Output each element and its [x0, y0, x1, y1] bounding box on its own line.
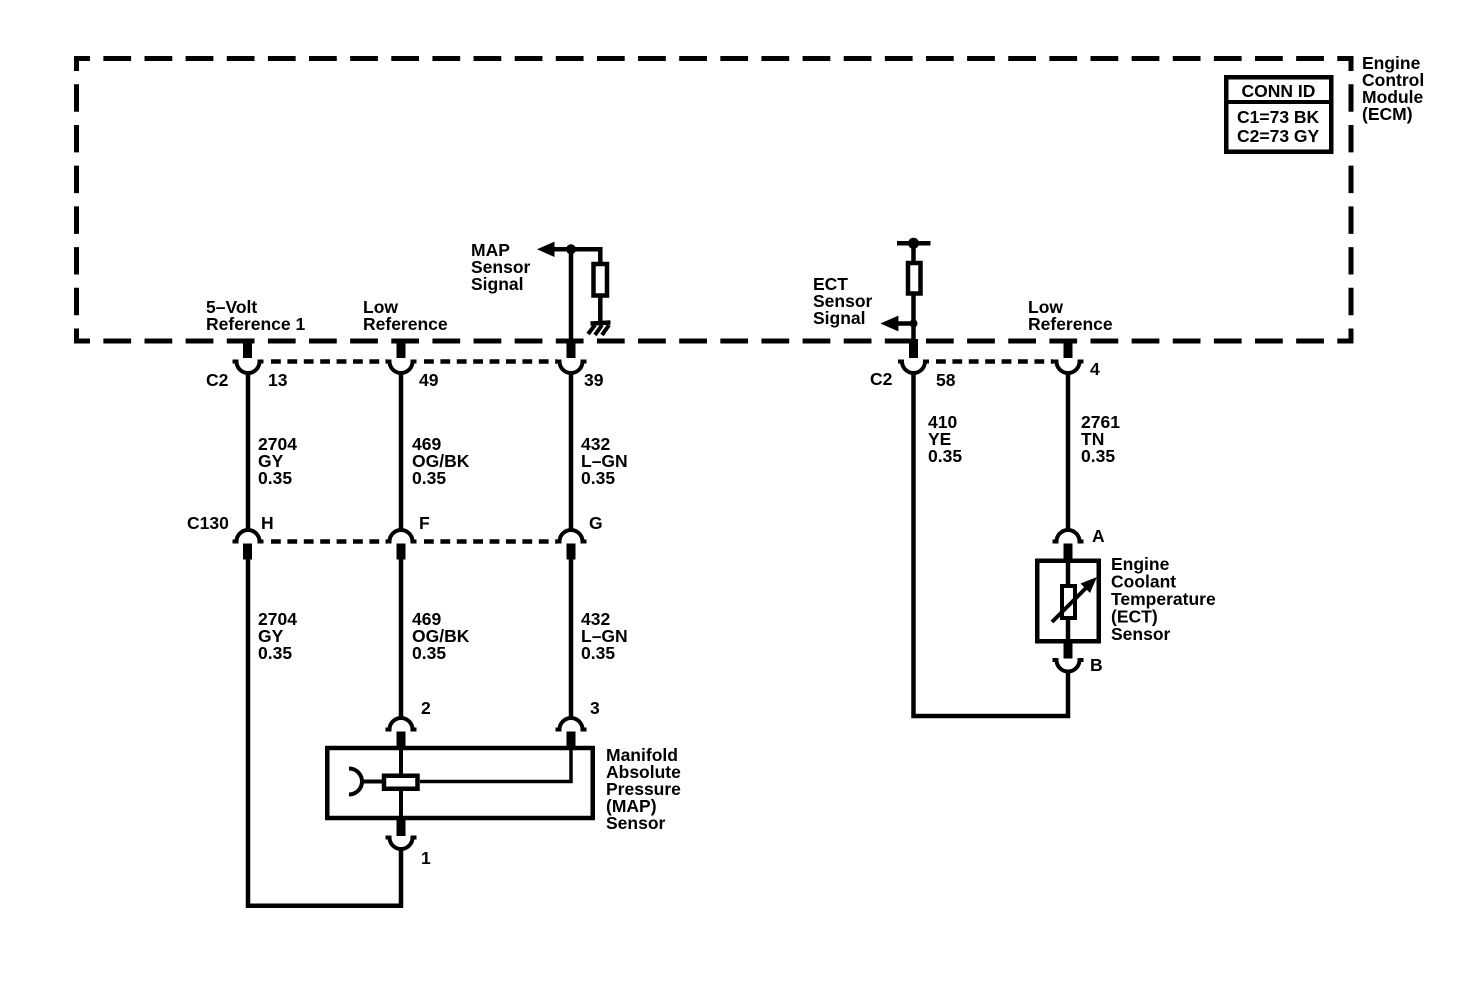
wire 432 L-GN segment C2-39 to C130-G — [569, 371, 574, 531]
MAP Sensor Signal label — [471, 240, 531, 294]
connector C2 pin 58 — [898, 339, 929, 373]
svg-text:G: G — [589, 513, 603, 533]
svg-text:2: 2 — [421, 698, 431, 718]
svg-text:CONN ID: CONN ID — [1242, 81, 1316, 101]
MAP internal vertical wire pin2-pin1 — [399, 746, 403, 820]
wire 410 YE segment pin 58 to ECT-B (with bottom run) — [914, 371, 1069, 716]
wire 2704 GY segment C2-13 to C130-H — [246, 371, 251, 531]
svg-text:0.35: 0.35 — [412, 643, 446, 663]
svg-text:Sensor: Sensor — [1111, 624, 1171, 644]
svg-text:4: 4 — [1090, 359, 1100, 379]
wire label 469 OG/BK 0.35 (lower) — [412, 609, 470, 663]
MAP internal wire port to element — [360, 780, 384, 784]
svg-text:0.35: 0.35 — [258, 643, 292, 663]
svg-text:Reference: Reference — [363, 314, 448, 334]
MAP internal wire element to pin 3 — [420, 748, 571, 782]
connector ECT pin B — [1053, 642, 1084, 672]
svg-text:Signal: Signal — [813, 308, 866, 328]
connector C2 pin 49 — [386, 339, 417, 373]
wire 432 L-GN segment C130-G to MAP pin 3 — [569, 560, 574, 720]
connector C130 dotted tie line — [271, 539, 557, 544]
wire 469 OG/BK segment C2-49 to C130-F — [399, 371, 404, 531]
wire label 410 YE 0.35 — [928, 412, 962, 466]
MAP internal element rectangle — [384, 776, 418, 789]
svg-text:0.35: 0.35 — [928, 446, 962, 466]
connector C2 pin 39 — [556, 339, 587, 373]
MAP sensor label — [606, 745, 681, 833]
wire: MAP signal vertical to pin 39 — [569, 249, 574, 341]
svg-text:C130: C130 — [187, 513, 229, 533]
ECT Sensor Signal label — [813, 274, 873, 328]
ECT sensor label — [1111, 554, 1216, 644]
5-Volt Reference 1 label — [206, 297, 305, 334]
wire: corner to MAP pull-up resistor — [598, 249, 600, 264]
svg-text:B: B — [1090, 655, 1103, 675]
svg-text:39: 39 — [584, 370, 604, 390]
connector MAP pin 1 — [386, 818, 417, 849]
connector C130 pin F — [386, 530, 417, 560]
wire label 2704 GY 0.35 (lower) — [258, 609, 297, 663]
svg-text:Reference: Reference — [1028, 314, 1113, 334]
connector C130 pin G — [556, 530, 587, 560]
svg-text:Signal: Signal — [471, 274, 524, 294]
ECT sensor box — [1037, 561, 1099, 642]
node: MAP signal junction dot — [566, 244, 576, 254]
MAP internal pressure port arc — [349, 769, 362, 795]
node: ECT 5V bias bar and dot — [897, 238, 931, 249]
wire 2761 TN segment pin 4 to ECT-A — [1066, 371, 1071, 531]
svg-text:58: 58 — [936, 370, 956, 390]
wire label 2704 GY 0.35 (upper) — [258, 434, 297, 488]
Low Reference label (right) — [1028, 297, 1113, 334]
wire: ECT signal vertical to pin 58 — [911, 243, 916, 341]
resistor: MAP pull-up — [594, 262, 608, 322]
connector C2 pin 4 — [1053, 339, 1084, 373]
wire label 432 L-GN 0.35 (lower) — [581, 609, 628, 663]
connector C2 pin 13 — [233, 339, 264, 373]
svg-text:Reference 1: Reference 1 — [206, 314, 305, 334]
svg-text:F: F — [419, 513, 430, 533]
ECM label: Engine Control Module (ECM) — [1362, 53, 1424, 124]
wire label 469 OG/BK 0.35 (upper) — [412, 434, 470, 488]
MAP signal arrow (points left) — [537, 242, 600, 257]
Low Reference label (left) — [363, 297, 448, 334]
ECT internal vertical wire — [1066, 559, 1071, 643]
svg-text:C2: C2 — [870, 369, 893, 389]
svg-text:13: 13 — [268, 370, 288, 390]
ECM module dashed border — [74, 56, 1353, 344]
svg-text:Sensor: Sensor — [606, 813, 666, 833]
svg-text:3: 3 — [590, 698, 600, 718]
connector C2 dotted tie line (pins 58-4) — [936, 359, 1053, 364]
wire 2704 GY segment C130-H to MAP pin 1 (with bottom run) — [248, 560, 401, 906]
ground (chassis) symbol — [588, 323, 611, 336]
svg-text:0.35: 0.35 — [258, 468, 292, 488]
resistor: ECT pull-up — [908, 263, 921, 294]
connector C130 pin H — [233, 530, 264, 560]
svg-text:C2: C2 — [206, 370, 229, 390]
svg-text:(ECM): (ECM) — [1362, 104, 1413, 124]
connector MAP pin 2 — [386, 718, 417, 747]
svg-text:0.35: 0.35 — [581, 643, 615, 663]
ECT thermistor arrow diagonal — [1052, 577, 1097, 622]
wire 469 OG/BK segment C130-F to MAP pin 2 — [399, 560, 404, 720]
ECT thermistor rectangle — [1062, 586, 1075, 618]
svg-text:0.35: 0.35 — [1081, 446, 1115, 466]
svg-text:H: H — [261, 513, 274, 533]
svg-text:49: 49 — [419, 370, 439, 390]
svg-text:A: A — [1092, 526, 1105, 546]
connector C2 dotted tie line (pins 13-49-39) — [271, 359, 557, 364]
svg-text:0.35: 0.35 — [412, 468, 446, 488]
svg-text:0.35: 0.35 — [581, 468, 615, 488]
wire label 2761 TN 0.35 — [1081, 412, 1120, 466]
connector MAP pin 3 — [556, 718, 587, 747]
connector ECT pin A — [1053, 530, 1084, 560]
CONN ID table box — [1224, 77, 1334, 152]
wire label 432 L-GN 0.35 (upper) — [581, 434, 628, 488]
svg-text:1: 1 — [421, 848, 431, 868]
MAP sensor box — [327, 748, 593, 818]
ECT signal arrow (points left) — [880, 316, 917, 332]
svg-text:C2=73 GY: C2=73 GY — [1237, 126, 1320, 146]
svg-text:C1=73 BK: C1=73 BK — [1237, 107, 1320, 127]
